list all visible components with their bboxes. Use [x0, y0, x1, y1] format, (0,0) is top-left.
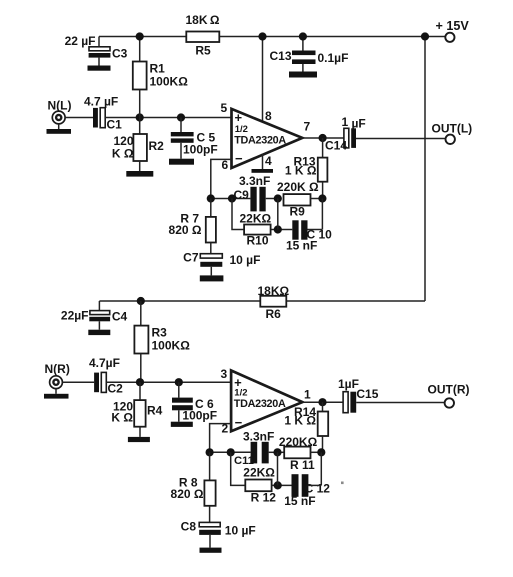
wire node B vertical	[277, 199, 279, 230]
wire R11 to node Cb	[311, 451, 322, 453]
capacitor C8 10uF	[199, 522, 220, 526]
node rail/+15V branch junction	[421, 32, 429, 40]
svg-text:22KΩ: 22KΩ	[243, 466, 275, 480]
capacitor C9 3.3nF	[250, 187, 256, 212]
wire feedback row 2 left	[210, 451, 251, 453]
svg-text:R9: R9	[290, 205, 306, 219]
wire R9 to node C	[310, 198, 322, 200]
resistor R10 22K	[244, 225, 271, 235]
ground C8	[200, 548, 222, 553]
svg-text:100KΩ: 100KΩ	[152, 339, 191, 353]
ground C4	[88, 330, 110, 335]
capacitor C3	[89, 47, 110, 51]
ground C13	[289, 72, 317, 78]
op-amp U1 1/2 TDA2320A	[232, 109, 303, 168]
svg-text:1 K Ω: 1 K Ω	[284, 414, 316, 428]
wire N(L) to C1	[65, 117, 93, 119]
ground C3	[88, 66, 111, 71]
wire pin2 to feedback node	[210, 424, 232, 453]
wire feedback row left	[211, 198, 251, 200]
wire pin7 to C14	[302, 137, 344, 139]
capacitor C13	[292, 51, 316, 56]
wire C9 to R9	[266, 198, 281, 200]
svg-text:1 K Ω: 1 K Ω	[285, 164, 317, 178]
node A2b C11/R12 left junction	[227, 448, 235, 456]
node output2/R14 junction	[318, 398, 326, 406]
wire node Bb vertical	[277, 452, 279, 485]
svg-text:C7: C7	[183, 251, 199, 265]
wire input row 2 to pin3	[106, 381, 231, 383]
capacitor C15	[343, 392, 348, 413]
svg-text:C1: C1	[107, 118, 123, 132]
capacitor C14	[344, 128, 349, 148]
wire +15V vertical rail	[424, 37, 426, 302]
wire C12 to node Cb	[308, 484, 321, 486]
node B2 junction	[274, 225, 282, 233]
svg-text:R10: R10	[247, 234, 269, 248]
node C R13/R9/C10 junction	[318, 194, 326, 202]
node input2/C6 junction	[175, 378, 183, 386]
node rail/pin8 junction	[258, 32, 266, 40]
node A2 C9/R10 left junction	[228, 194, 236, 202]
resistor R7 820	[210, 199, 212, 217]
svg-text:15 nF: 15 nF	[284, 494, 315, 508]
node rail/R1 junction	[136, 32, 144, 40]
terminal OUT(L)	[446, 135, 455, 144]
ground R2	[126, 171, 153, 177]
wire node Cb vertical	[320, 452, 322, 485]
capacitor C1	[93, 108, 98, 128]
svg-text:K Ω: K Ω	[112, 147, 134, 161]
svg-text:18K Ω: 18K Ω	[185, 13, 219, 27]
wire C4 stub	[98, 301, 100, 310]
svg-text:1: 1	[304, 388, 311, 402]
resistor R5	[186, 32, 219, 43]
node B top junction	[274, 194, 282, 202]
ground N(R)	[44, 394, 69, 399]
svg-text:C15: C15	[356, 387, 378, 401]
capacitor C5	[180, 118, 182, 133]
svg-text:3.3nF: 3.3nF	[243, 430, 274, 444]
svg-text:N(R): N(R)	[45, 362, 70, 376]
terminal OUT(R)	[445, 398, 454, 407]
svg-text:N(L): N(L)	[48, 99, 72, 113]
node output/R13 junction	[319, 134, 327, 142]
svg-text:TDA2320A: TDA2320A	[234, 135, 286, 147]
ground R4	[128, 437, 150, 442]
wire N(R) to C2	[62, 381, 94, 383]
svg-text:220K Ω: 220K Ω	[277, 180, 319, 194]
wire input row to pin5	[105, 117, 231, 119]
capacitor C12 15nF	[292, 474, 299, 497]
svg-text:8: 8	[265, 109, 272, 123]
svg-text:1: 1	[342, 115, 349, 129]
wire R1 top	[139, 37, 141, 62]
svg-text:7: 7	[304, 120, 311, 134]
svg-text:820 Ω: 820 Ω	[169, 223, 202, 237]
wire C11 to R11	[269, 451, 285, 453]
node A1 pin6/R7 junction	[207, 194, 215, 202]
resistor R2	[139, 118, 141, 135]
wire node C vertical	[321, 199, 323, 230]
ground N(L)	[47, 129, 72, 134]
capacitor C6	[178, 382, 180, 397]
svg-text:22KΩ: 22KΩ	[240, 212, 272, 226]
svg-text:3.3nF: 3.3nF	[239, 174, 270, 188]
wire C14 to OUT(L)	[356, 138, 446, 140]
speck artifact	[341, 482, 344, 485]
capacitor C11 3.3nF	[251, 442, 258, 464]
node input2/R3/R4 junction	[136, 378, 144, 386]
connector N(L)	[52, 111, 65, 124]
svg-text:10 µF: 10 µF	[225, 524, 256, 538]
svg-text:22µF: 22µF	[61, 309, 89, 323]
capacitor C10 15nF	[292, 220, 298, 239]
ground pin4	[252, 169, 274, 173]
svg-text:−: −	[235, 151, 243, 166]
wire top +15V rail	[99, 36, 445, 38]
resistor R3	[140, 301, 142, 326]
svg-text:3: 3	[221, 367, 228, 381]
node A1b pin2/R8 junction	[206, 448, 214, 456]
svg-text:100pF: 100pF	[183, 143, 218, 157]
wire R12 branch left	[231, 452, 246, 485]
svg-text:15 nF: 15 nF	[286, 239, 317, 253]
ground C5	[169, 159, 194, 165]
svg-text:+: +	[235, 110, 243, 125]
resistor R9 220K	[284, 194, 311, 205]
svg-text:22 µF: 22 µF	[65, 34, 96, 48]
node Bb top junction	[273, 448, 281, 456]
wire pin8 drop	[262, 37, 264, 123]
op-amp U2 1/2 TDA2320A	[231, 371, 302, 432]
node Cb R14/R11/C12 junction	[317, 448, 325, 456]
svg-text:C2: C2	[108, 382, 124, 396]
wire C13 drop	[302, 37, 304, 51]
svg-text:R 11: R 11	[290, 458, 315, 472]
node rail/C13 junction	[299, 32, 307, 40]
resistor R13	[322, 138, 324, 158]
wire pin1 to C15	[302, 401, 343, 403]
svg-text:C8: C8	[181, 520, 197, 534]
svg-text:R5: R5	[195, 44, 211, 58]
svg-text:K Ω: K Ω	[111, 411, 133, 425]
wire pin6 to feedback node	[211, 159, 232, 198]
wire R10 to node B2	[271, 229, 293, 231]
svg-text:R3: R3	[152, 326, 168, 340]
node input/C5 junction	[177, 113, 185, 121]
svg-text:R 12: R 12	[251, 491, 277, 505]
connector N(R)	[50, 376, 63, 389]
svg-text:C14: C14	[325, 139, 347, 153]
svg-text:820 Ω: 820 Ω	[171, 487, 204, 501]
svg-text:220KΩ: 220KΩ	[279, 435, 318, 449]
wire C3 stub	[98, 37, 100, 47]
svg-text:R1: R1	[150, 62, 166, 76]
svg-text:+ 15V: + 15V	[436, 19, 470, 33]
wire pin 4	[262, 154, 264, 170]
svg-text:18KΩ: 18KΩ	[258, 284, 290, 298]
svg-text:R2: R2	[149, 139, 165, 153]
svg-text:−: −	[235, 415, 243, 430]
power terminal +15V	[445, 33, 454, 42]
resistor R8 820	[209, 452, 211, 480]
svg-text:5: 5	[221, 101, 228, 115]
svg-text:OUT(R): OUT(R)	[428, 383, 470, 397]
wire R10 branch left	[232, 199, 244, 230]
svg-text:4.7µF: 4.7µF	[89, 356, 120, 370]
svg-text:100KΩ: 100KΩ	[150, 75, 189, 89]
capacitor C4	[90, 311, 110, 315]
ground C7	[200, 275, 224, 281]
capacitor C7 10uF	[200, 254, 222, 258]
svg-text:C3: C3	[112, 47, 128, 61]
svg-text:100pF: 100pF	[182, 409, 217, 423]
svg-text:1/2: 1/2	[235, 124, 248, 135]
svg-text:4: 4	[265, 154, 272, 168]
svg-text:µF: µF	[352, 117, 366, 131]
svg-text:4.7 µF: 4.7 µF	[84, 95, 118, 109]
node input/R1/R2 junction	[136, 113, 144, 121]
resistor R12 22K	[245, 480, 271, 492]
resistor R6 18K	[260, 296, 286, 307]
svg-text:R6: R6	[266, 307, 282, 321]
svg-text:C13: C13	[269, 49, 291, 63]
wire R12 to node B2b	[272, 484, 292, 486]
resistor R14	[322, 402, 324, 411]
capacitor C2	[94, 373, 99, 393]
svg-text:R4: R4	[147, 404, 163, 418]
svg-text:C9: C9	[234, 188, 250, 202]
wire C15 to OUT(R)	[356, 402, 444, 404]
resistor R1	[133, 62, 147, 90]
wire bottom supply rail	[99, 300, 425, 302]
node rail2/R3 junction	[137, 297, 145, 305]
svg-text:TDA2320A: TDA2320A	[234, 398, 286, 410]
svg-text:OUT(L): OUT(L)	[432, 122, 473, 136]
svg-text:10 µF: 10 µF	[230, 253, 261, 267]
resistor R11 220K	[284, 447, 310, 459]
svg-text:C4: C4	[112, 310, 128, 324]
resistor R4	[139, 382, 141, 400]
svg-text:0.1µF: 0.1µF	[318, 51, 349, 65]
node B2b junction	[274, 481, 282, 489]
ground C6	[171, 422, 193, 427]
wire C10 to node C	[308, 229, 323, 231]
